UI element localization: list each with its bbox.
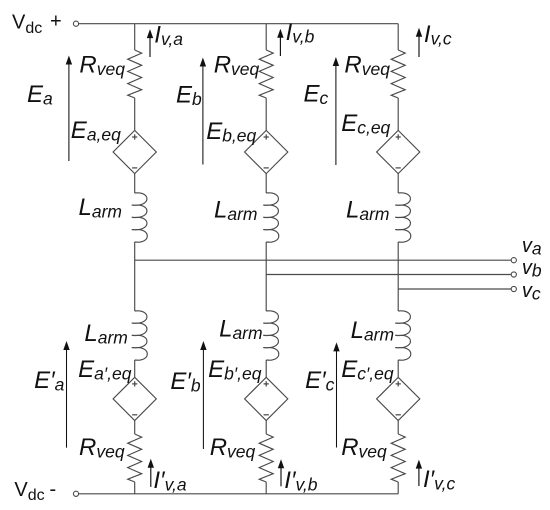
arrow arrow Epb — [200, 341, 206, 449]
resistor Rveq upper a — [128, 50, 142, 98]
wire leg a source-to-coil wire — [134, 174, 136, 193]
arrow current Ipv,a — [148, 459, 154, 487]
wire leg b source-to-R wire lower — [265, 421, 267, 435]
wire leg c R-to-source wire — [397, 98, 399, 130]
svg-text:vb: vb — [522, 257, 542, 281]
wire output line vc — [398, 288, 511, 290]
dependent source Eb,eq upper source — [245, 130, 288, 173]
wire leg a mid wire — [134, 242, 136, 311]
wire bottom DC rail — [79, 493, 399, 495]
arrow current Iv,c — [416, 28, 422, 57]
terminal vb terminal — [511, 272, 516, 277]
arrow current Ipv,b — [278, 459, 284, 486]
wire leg b coil-to-source wire lower — [265, 360, 267, 377]
wire leg b source-to-coil wire — [265, 174, 267, 193]
arrow current Iv,a — [147, 29, 153, 57]
dependent source Ea,eq upper source — [113, 130, 156, 173]
arrow arrow Epa — [63, 341, 69, 448]
wire leg c source-to-R wire lower — [397, 421, 399, 435]
wire leg c coil-to-source wire lower — [397, 360, 399, 377]
wire leg a bottom lead — [134, 482, 136, 494]
dependent source Ebp,eq lower source — [245, 377, 288, 420]
wire leg a source-to-R wire lower — [134, 421, 136, 435]
wire leg a top lead — [134, 24, 136, 50]
inductor Larm lower a — [132, 311, 148, 360]
terminal Vdc+ terminal — [73, 21, 78, 26]
dependent source Ecp,eq lower source — [377, 377, 420, 420]
arrow arrow Ea — [66, 56, 72, 162]
wire leg b bottom lead — [265, 482, 267, 494]
arrow arrow Epc — [333, 342, 339, 447]
wire top DC rail — [79, 23, 399, 25]
arrow arrow Eb — [200, 58, 206, 165]
resistor Rveq lower a — [128, 434, 142, 482]
terminal Vdc- terminal — [73, 491, 78, 496]
svg-text:vc: vc — [522, 280, 541, 304]
wire leg c mid wire — [397, 242, 399, 311]
wire leg b top lead — [265, 24, 267, 50]
wire leg a coil-to-source wire lower — [134, 360, 136, 377]
svg-text:-: - — [50, 478, 57, 500]
wire leg a R-to-source wire — [134, 98, 136, 130]
inductor Larm upper b — [263, 193, 279, 242]
terminal vc terminal — [511, 286, 516, 291]
resistor Rveq upper b — [259, 50, 273, 98]
resistor Rveq lower c — [391, 434, 405, 482]
wire output line va — [135, 259, 512, 261]
arrow current Iv,b — [277, 29, 283, 56]
inductor Larm upper a — [132, 193, 148, 242]
arrow current Ipv,c — [416, 460, 422, 486]
resistor Rveq lower b — [259, 434, 273, 482]
inductor Larm lower c — [395, 311, 411, 360]
wire leg b R-to-source wire — [265, 98, 267, 130]
wire leg c bottom lead — [397, 482, 399, 494]
wire leg c source-to-coil wire — [397, 174, 399, 193]
resistor Rveq upper c — [391, 50, 405, 98]
dependent source Ec,eq upper source — [377, 130, 420, 173]
svg-text:+: + — [50, 11, 62, 33]
terminal va terminal — [511, 258, 516, 263]
svg-text:va: va — [522, 235, 542, 259]
dependent source Eap,eq lower source — [113, 377, 156, 420]
arrow arrow Ec — [333, 57, 339, 165]
wire leg c top lead — [397, 24, 399, 50]
wire output line vb — [266, 274, 511, 276]
wire leg b mid wire — [265, 242, 267, 311]
inductor Larm lower b — [263, 311, 279, 360]
inductor Larm upper c — [395, 193, 411, 242]
